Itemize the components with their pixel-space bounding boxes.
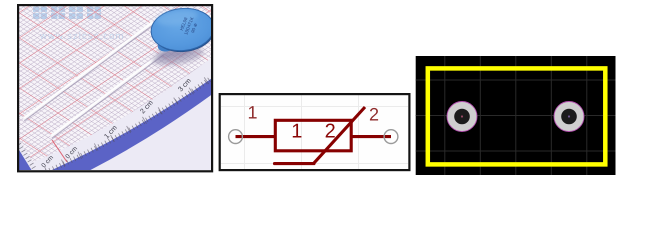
label 2 inside body	[325, 121, 336, 143]
varistor body rectangle	[275, 120, 351, 151]
pin 1 wire	[236, 135, 277, 138]
footprint canvas grid	[416, 56, 616, 175]
disc shadow	[151, 43, 205, 69]
silkscreen outline	[428, 68, 606, 164]
ruler ticks left scale	[19, 144, 34, 168]
blue ruler band left edge	[9, 146, 30, 180]
pin number 2	[369, 104, 379, 124]
photo panel border	[18, 5, 212, 171]
lead wire 2	[52, 52, 163, 138]
symbol panel border	[220, 94, 410, 170]
ruler ticks bottom scale	[46, 79, 211, 173]
lead wire 1	[25, 23, 153, 121]
svg-text:1: 1	[247, 103, 257, 123]
pin 2 wire	[352, 135, 391, 138]
ruler label 2cm	[139, 99, 155, 115]
pin number 1	[247, 103, 257, 123]
blue ruler band bottom edge	[44, 77, 214, 193]
pad 1	[447, 102, 477, 132]
svg-text:2: 2	[325, 121, 336, 143]
product photo panel: varistor RV on graph paper	[9, 4, 217, 193]
pin 2 circle	[384, 130, 398, 144]
PCB footprint panel	[416, 56, 616, 175]
pad 2	[554, 102, 584, 132]
pin 1 circle	[229, 130, 243, 144]
ruler label 3cm	[177, 77, 193, 93]
watermark	[33, 7, 125, 43]
svg-text:1: 1	[291, 121, 302, 143]
varistor diagonal foot	[275, 162, 315, 165]
ruler label 0cm a	[40, 154, 55, 169]
ruler label 1cm	[103, 124, 119, 140]
disc marking text	[178, 14, 200, 37]
stray red grid line in margin	[52, 140, 67, 162]
ruler long ticks bottom scale	[46, 78, 211, 172]
ruler label 0cm b	[64, 145, 79, 160]
svg-text:2: 2	[369, 104, 379, 124]
varistor disc body	[149, 5, 217, 55]
canvas grid	[221, 95, 408, 169]
schematic symbol panel	[219, 93, 411, 171]
label 1 inside body	[291, 121, 302, 143]
varistor diagonal stroke	[314, 107, 366, 164]
